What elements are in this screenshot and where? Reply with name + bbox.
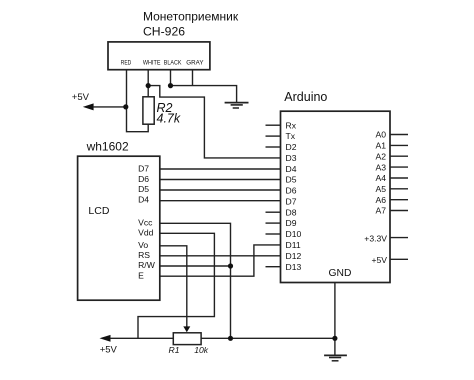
wire LCD RS to Arduino D12 [160,255,281,257]
svg-text:D9: D9 [286,218,297,228]
svg-text:+5V: +5V [371,255,387,265]
ground (top) [225,103,249,108]
svg-text:4.7k: 4.7k [157,112,181,126]
svg-text:Монетоприемник: Монетоприемник [143,10,239,24]
node junction R/W-GND [228,263,233,268]
wire LCD D7 to Arduino D4 [160,168,281,170]
svg-text:+3.3V: +3.3V [364,233,387,243]
title Монетоприемник CH-926 [143,10,239,39]
svg-text:D4: D4 [138,195,149,205]
resistor R2 [143,97,154,124]
svg-text:D5: D5 [286,175,297,185]
node junction BLACK [168,83,173,88]
svg-text:Vdd: Vdd [138,228,154,238]
wire signal WHITE to Arduino D3 [148,86,280,158]
svg-text:D8: D8 [286,207,297,217]
node junction RED +5V [123,104,128,109]
potentiometer wiper arrow [183,326,190,332]
svg-text:Tx: Tx [286,131,296,141]
svg-text:E: E [138,270,144,280]
svg-text:+5V: +5V [72,92,90,103]
wire LCD R/W to GND net [160,265,231,267]
wire GRAY vertical [192,70,194,86]
svg-text:Vo: Vo [138,240,148,250]
svg-text:D13: D13 [286,262,302,272]
svg-text:wh1602: wh1602 [86,140,129,154]
svg-text:10k: 10k [194,345,209,355]
Arduino unused left pin stubs [266,125,281,267]
svg-text:D12: D12 [286,251,302,261]
wire Arduino GND to ground [334,283,336,356]
svg-text:RS: RS [138,250,150,260]
svg-text:D5: D5 [138,184,149,194]
wire RED vertical [127,70,149,132]
svg-text:D10: D10 [286,229,302,239]
Arduino left pin labels Rx Tx D2-D13 [286,120,302,271]
svg-text:BLACK: BLACK [164,59,182,66]
+5V supply (top) [72,92,126,110]
Arduino box [281,111,391,282]
svg-text:D3: D3 [286,153,297,163]
svg-text:D7: D7 [286,196,297,206]
wire WHITE vertical [147,70,149,97]
svg-text:CH-926: CH-926 [143,24,185,38]
wire LCD D5 to Arduino D6 [160,189,281,191]
svg-text:WHITE: WHITE [143,59,161,66]
node junction GND rail [332,336,337,341]
svg-text:A5: A5 [375,184,386,194]
wire GND rail (right of R1) [201,337,335,339]
Arduino right pin labels A0-A7 +3.3V +5V [364,130,387,265]
wire LCD Vo to R1 wiper [160,246,187,327]
svg-text:A2: A2 [375,151,386,161]
svg-text:A4: A4 [375,173,386,183]
svg-text:Vcc: Vcc [138,218,153,228]
svg-text:Arduino: Arduino [284,90,327,104]
node junction Vcc rail [228,336,233,341]
potentiometer R1 [173,333,201,345]
svg-text:GRAY: GRAY [186,59,204,66]
LCD box wh1602 [78,156,160,300]
svg-text:D6: D6 [286,186,297,196]
wire BLACK/GRAY to ground [171,86,237,103]
wire LCD Vdd to +5V rail [138,233,214,338]
node junction WHITE [146,83,151,88]
svg-text:LCD: LCD [88,205,109,217]
svg-text:D4: D4 [286,164,297,174]
svg-text:A0: A0 [375,130,386,140]
wire LCD D6 to Arduino D5 [160,179,281,181]
svg-text:R1: R1 [169,345,180,355]
svg-text:D11: D11 [286,240,301,250]
coin acceptor CH-926 box [108,42,210,70]
wire LCD D4 to Arduino D7 [160,200,281,202]
svg-text:D7: D7 [138,164,149,174]
+5V supply (bottom) [100,335,174,355]
svg-text:D2: D2 [286,142,297,152]
wire LCD E to Arduino D11 [160,245,281,276]
svg-text:A7: A7 [375,206,386,216]
svg-text:RED: RED [121,59,132,66]
svg-text:R/W: R/W [138,260,156,270]
Arduino right pin stubs A0-A7 +3.3V +5V [390,135,408,260]
svg-text:A6: A6 [375,195,386,205]
svg-text:D6: D6 [138,174,149,184]
wire LCD Vcc to GND rail [160,223,231,338]
svg-text:GND: GND [329,268,352,279]
svg-text:Rx: Rx [286,120,297,130]
LCD pin labels D7 D6 D5 D4 Vcc Vdd Vo RS R/W E [138,164,156,281]
svg-text:A3: A3 [375,162,386,172]
svg-text:+5V: +5V [100,344,118,355]
wire BLACK vertical [170,70,172,86]
ground (bottom) [324,355,347,360]
svg-text:A1: A1 [375,141,386,151]
